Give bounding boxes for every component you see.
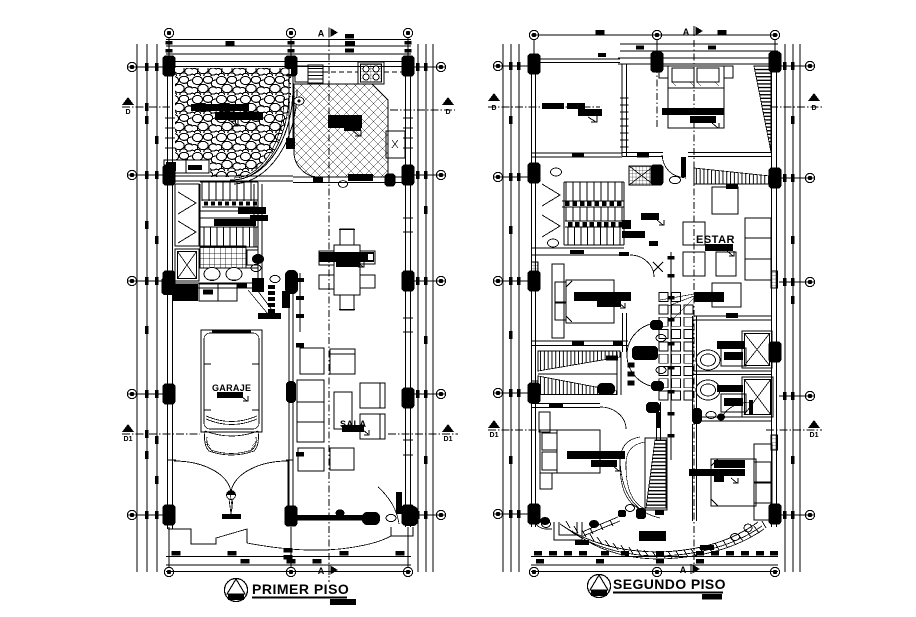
section marker D right (segundo piso) xyxy=(808,93,820,112)
grid bubbles left column (segundo piso) xyxy=(493,61,502,70)
corridor entry door arc (segundo piso) xyxy=(630,255,654,277)
middle stair wedge (segundo piso) xyxy=(645,438,667,510)
corridor west wall lower (segundo piso) xyxy=(656,402,658,440)
dumbwaiter hatched box (segundo piso) xyxy=(629,166,654,185)
exterior left wall (primer piso) xyxy=(167,62,169,530)
bath top wall (segundo piso) xyxy=(694,315,771,317)
stair flight 2 (primer piso) xyxy=(203,227,205,247)
left dimension ticks (primer piso) xyxy=(127,66,166,68)
grid centerline B dashed (segundo piso) xyxy=(656,39,658,128)
window hatch marks walls (segundo piso) xyxy=(532,262,539,277)
svg-text:D1: D1 xyxy=(444,436,453,443)
curved wall arcs (primer piso) xyxy=(232,88,293,180)
right dimension lines vertical (primer piso) xyxy=(417,44,419,572)
section marker D left (primer piso) xyxy=(122,97,134,116)
section line D dash-dot left (primer piso) xyxy=(122,106,170,108)
terrace label blobs (segundo piso) xyxy=(542,103,564,109)
right dimension ticks (primer piso) xyxy=(412,66,446,68)
balcony planter black bar (segundo piso) xyxy=(639,531,666,541)
stair mid black band (primer piso) xyxy=(214,219,256,226)
section marker D1 left (segundo piso) xyxy=(488,420,500,439)
columns (segundo piso) xyxy=(528,54,541,75)
estar square top (segundo piso) xyxy=(712,187,738,214)
bathroom sinks (primer piso) xyxy=(204,268,220,281)
window ticks right wall (primer piso) xyxy=(403,117,413,119)
patio label text blob (primer piso) xyxy=(191,104,249,111)
lamp post front (primer piso) xyxy=(227,491,236,500)
stair rail between wedges (segundo piso) xyxy=(538,373,617,375)
bedroom4 bed (segundo piso) xyxy=(711,459,756,506)
garage car body xyxy=(201,330,262,432)
bath bottom wall (segundo piso) xyxy=(694,416,771,418)
dimension ticks bottom (segundo piso) xyxy=(534,551,542,556)
bedroom2 south wall (segundo piso) xyxy=(532,340,628,342)
hall door jamb blob (primer piso) xyxy=(285,270,298,294)
svg-text:SEGUNDO PISO: SEGUNDO PISO xyxy=(613,576,726,592)
bath divider wall (segundo piso) xyxy=(694,370,771,372)
bedroom3 side cabinet (segundo piso) xyxy=(540,473,552,489)
bedroom1 door arc (segundo piso) xyxy=(662,155,686,178)
garage door arcs (primer piso) xyxy=(174,461,231,494)
section marker D left (segundo piso) xyxy=(488,93,500,112)
sala sofa squares top (primer piso) xyxy=(300,348,324,374)
section flag A top (primer piso) xyxy=(318,28,338,39)
stair baluster band 2 (segundo piso) xyxy=(565,220,628,222)
stair newel wall (segundo piso) xyxy=(616,352,618,395)
kitchen fan oval (primer piso) xyxy=(294,97,304,105)
stair ramp wedge right (segundo piso) xyxy=(694,168,770,184)
stair handrail balusters (primer piso) xyxy=(202,199,258,201)
bedroom2 label blobs xyxy=(574,292,631,301)
svg-text:PRIMER PISO: PRIMER PISO xyxy=(252,581,349,597)
stair bottom curve (segundo piso) xyxy=(620,460,660,518)
left dimension lines vertical (primer piso) xyxy=(136,44,138,572)
section line A-A vertical (primer piso) xyxy=(328,40,330,582)
stair flight 1 (primer piso) xyxy=(201,182,203,201)
hall tick (primer piso) xyxy=(237,284,247,288)
svg-text:GARAJE: GARAJE xyxy=(212,383,251,393)
section marker D right (primer piso) xyxy=(442,97,454,116)
kitchen door arc to hall (primer piso) xyxy=(294,152,319,177)
bedroom2 bed (segundo piso) xyxy=(566,280,614,323)
elevator arrows (primer piso) xyxy=(178,192,196,214)
shower box 2 (segundo piso) xyxy=(742,377,773,417)
car hood and bumper xyxy=(205,431,259,455)
corridor dimension ticks (segundo piso) xyxy=(670,252,672,460)
interior wall below patio (primer piso) xyxy=(167,175,293,177)
stone patio hatch (primer piso) xyxy=(175,68,291,177)
stair arrows (segundo piso) xyxy=(542,184,560,206)
svg-text:A: A xyxy=(318,566,325,576)
entry peephole oval (primer piso) xyxy=(386,514,396,521)
bedroom3 label blobs xyxy=(567,451,625,459)
bedroom3 bed (segundo piso) xyxy=(540,430,600,473)
stair landing lines (primer piso) xyxy=(200,210,258,212)
exterior top wall bedroom (segundo piso) xyxy=(618,57,778,59)
corridor curved wall (segundo piso) xyxy=(627,323,659,387)
elevator shaft (primer piso) xyxy=(175,184,199,246)
section flag A bottom (segundo piso) xyxy=(680,564,700,575)
svg-text:D1: D1 xyxy=(810,432,819,439)
bathroom counter (primer piso) xyxy=(200,267,258,269)
grid bubbles left column (primer piso) xyxy=(127,62,136,71)
driveway arc (primer piso) xyxy=(230,493,232,509)
kitchen counter dashed (primer piso) xyxy=(323,71,358,73)
bath west wall (segundo piso) xyxy=(692,316,694,420)
corridor checker floor (segundo piso) xyxy=(659,305,668,314)
grid bubbles right column (segundo piso) xyxy=(805,61,814,70)
kitchen bottom wall (primer piso) xyxy=(293,176,406,178)
section marker D1 left (primer piso) xyxy=(122,424,134,443)
entry door leaf and arc (primer piso) xyxy=(396,492,402,514)
hall label bar (primer piso) xyxy=(258,313,281,319)
grid dimension line top (segundo piso) xyxy=(531,34,778,36)
dimension blobs top (segundo piso) xyxy=(596,30,605,35)
bedroom3 pillows xyxy=(542,433,557,450)
bedroom2 headboard strip (segundo piso) xyxy=(552,264,564,338)
grid bubbles bottom row (primer piso) xyxy=(164,567,173,576)
right wall (segundo piso) xyxy=(771,58,773,527)
hall dot blob (primer piso) xyxy=(252,254,264,264)
wall stub stair block right (primer piso) xyxy=(257,184,259,283)
bedroom1 south wall (segundo piso) xyxy=(622,152,663,154)
dining label blob (primer piso) xyxy=(319,252,374,262)
section flag A bottom (primer piso) xyxy=(318,565,338,576)
segundo piso title xyxy=(588,575,611,598)
stair bottom blobs (segundo piso) xyxy=(636,508,646,519)
bedroom1 bed foot black bar xyxy=(662,108,724,115)
sala wall jamb blob (primer piso) xyxy=(286,381,296,403)
sala sofa column (primer piso) xyxy=(297,380,324,442)
dimension ticks bottom (primer piso) xyxy=(168,527,170,567)
shower box with X (primer piso) xyxy=(175,249,199,281)
primer piso title xyxy=(225,579,248,602)
hall door knob ovals (primer piso) xyxy=(251,264,261,271)
exterior top wall (primer piso) xyxy=(166,61,411,63)
terrace front wall (segundo piso) xyxy=(531,152,622,154)
kitchen island label blob (primer piso) xyxy=(328,115,362,128)
interior wall patio/kitchen vertical (primer piso) xyxy=(288,66,290,138)
bedroom1 bed (segundo piso) xyxy=(668,66,724,128)
hall dimension line (primer piso) xyxy=(299,273,301,332)
bedroom3 wardrobe (segundo piso) xyxy=(539,412,550,432)
section marker D1 right (segundo piso) xyxy=(808,420,820,439)
dining table (primer piso) xyxy=(334,245,360,295)
svg-text:D1: D1 xyxy=(490,432,499,439)
section line A-A (segundo piso) xyxy=(693,40,695,570)
winder steps (primer piso) xyxy=(268,285,275,289)
kitchen floor cross hatch (primer piso) xyxy=(294,84,388,177)
stair flight lower (segundo piso) xyxy=(567,227,569,245)
balcony hatch ticks (segundo piso) xyxy=(566,521,570,528)
bedroom1 west wall (segundo piso) xyxy=(621,64,623,156)
left dimension lines (segundo piso) xyxy=(502,44,504,572)
svg-text:A: A xyxy=(683,27,690,37)
garage shelf boxes (primer piso) xyxy=(172,284,198,301)
right dimension lines (segundo piso) xyxy=(784,44,786,572)
bedroom4 closet strip (segundo piso) xyxy=(754,444,772,520)
estar table (segundo piso) xyxy=(712,283,741,307)
bedroom4 door jamb blobs (segundo piso) xyxy=(692,408,702,424)
corridor wall below stair (segundo piso) xyxy=(532,247,624,249)
exterior right wall (primer piso) xyxy=(405,62,407,528)
car hood hatch marks xyxy=(204,440,258,452)
stairwell treads (segundo piso) xyxy=(565,182,567,201)
section flag A top (segundo piso) xyxy=(683,26,703,37)
columns on grid (primer piso) xyxy=(163,56,176,77)
corridor door blobs (segundo piso) xyxy=(650,320,663,330)
corridor label blob with leaders (segundo piso) xyxy=(694,292,724,302)
shower box 1 (segundo piso) xyxy=(742,331,772,368)
grid bubbles top (segundo piso) xyxy=(529,30,538,39)
sala coffee table (primer piso) xyxy=(334,392,352,429)
dimension text blobs top (primer piso) xyxy=(345,34,354,39)
bathroom label blob (primer piso) xyxy=(238,207,266,214)
stair down wedge 1 (segundo piso) xyxy=(538,351,620,371)
grid lines bottom (segundo piso) xyxy=(531,556,778,558)
sala corner sofas (primer piso) xyxy=(298,448,324,471)
window ticks left wall (primer piso) xyxy=(165,117,175,119)
estar sofas (segundo piso) xyxy=(683,222,705,245)
section line D1 dash-dot (primer piso) xyxy=(122,433,200,435)
svg-text:D: D xyxy=(811,105,816,112)
balcony curve (segundo piso) xyxy=(536,524,552,529)
garage right wall to porch (primer piso) xyxy=(287,460,289,520)
middle stair rails arcs (segundo piso) xyxy=(620,437,640,509)
porch outline (primer piso) xyxy=(168,529,247,544)
bedroom4 door arc (segundo piso) xyxy=(722,402,752,421)
section marker D1 right (primer piso) xyxy=(442,424,454,443)
car windshield band xyxy=(205,416,258,436)
svg-text:A: A xyxy=(318,29,325,39)
grid bubbles bottom (segundo piso) xyxy=(529,567,538,576)
svg-text:D: D xyxy=(491,105,496,112)
estar long sofa (segundo piso) xyxy=(745,218,771,280)
grid dimension lines top (primer piso) xyxy=(166,39,411,41)
sala armchairs right (primer piso) xyxy=(360,383,385,408)
kitchen grill (primer piso) xyxy=(358,62,384,84)
bedroom1 closet hatch triangle (segundo piso) xyxy=(754,66,771,152)
terrace parapet top (segundo piso) xyxy=(531,58,620,60)
bedroom3 door arc (segundo piso) xyxy=(600,407,626,429)
stair well side rails (primer piso) xyxy=(199,184,201,247)
bedroom3 top wall (segundo piso) xyxy=(532,403,600,405)
bedroom2 door jamb blob (segundo piso) xyxy=(597,383,615,395)
entry door jamb blobs (primer piso) xyxy=(362,512,380,525)
svg-text:A: A xyxy=(680,565,687,575)
sala bottom wall black (primer piso) xyxy=(295,515,365,521)
bathroom tile floor (primer piso) xyxy=(200,246,246,268)
balcony rail diagonal (segundo piso) xyxy=(582,517,620,536)
grid dimension lines bottom (primer piso) xyxy=(166,556,411,558)
grid bubbles right column (primer piso) xyxy=(436,62,445,71)
corridor west wall upper (segundo piso) xyxy=(622,313,624,352)
toilet 1 (segundo piso) xyxy=(696,350,720,370)
dining chairs (primer piso) xyxy=(319,251,334,265)
toilet (primer piso) xyxy=(247,250,258,265)
balcony blobs (segundo piso) xyxy=(589,520,599,528)
left wall (segundo piso) xyxy=(531,59,533,527)
toilet 2 (segundo piso) xyxy=(696,380,720,400)
planter U bottom left (segundo piso) xyxy=(554,522,582,540)
stair baluster band 1 (segundo piso) xyxy=(562,200,624,202)
refrigerator (primer piso) xyxy=(386,131,405,158)
sala west wall (primer piso) xyxy=(288,293,290,520)
stair down wedge 2 (segundo piso) xyxy=(538,376,617,395)
svg-text:D1: D1 xyxy=(124,436,133,443)
bedroom4 label blobs xyxy=(714,460,745,468)
kitchen sink cabinet (primer piso) xyxy=(295,66,308,82)
stair label blob (segundo piso) xyxy=(641,213,659,220)
svg-text:D: D xyxy=(125,109,130,116)
kitchen stove striped (primer piso) xyxy=(308,65,323,83)
bedroom4 west wall (segundo piso) xyxy=(692,424,694,521)
wall dot sala (primer piso) xyxy=(336,509,345,516)
grid bubbles top row A B C (primer piso) xyxy=(164,28,173,37)
window boxes left wall patio (primer piso) xyxy=(164,160,209,173)
wall below bathroom (primer piso) xyxy=(166,282,262,284)
